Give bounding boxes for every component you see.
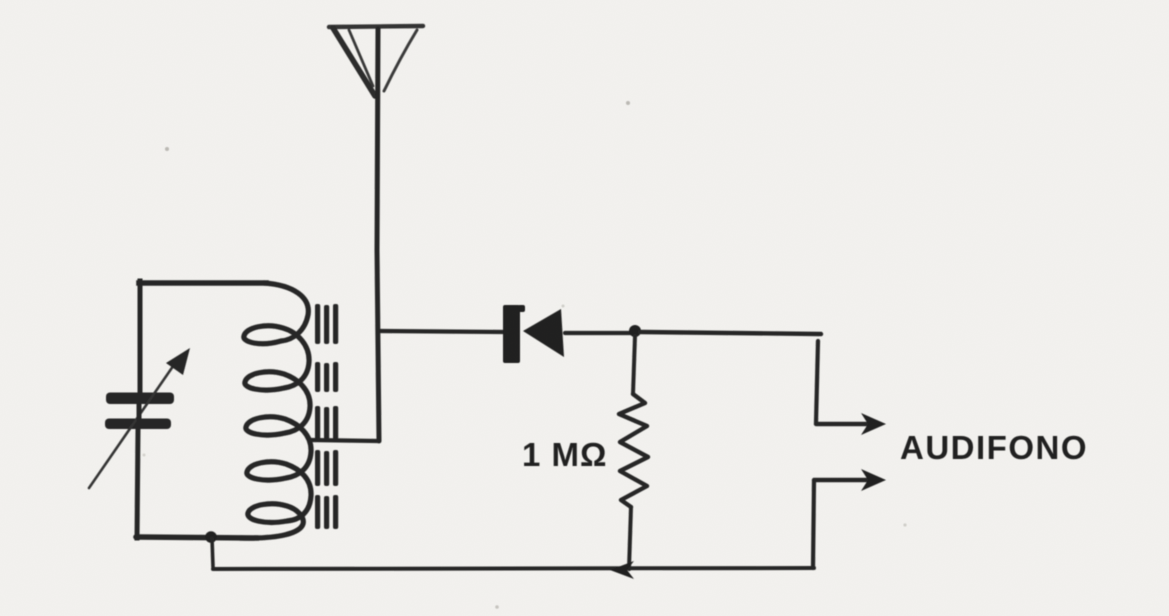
diode D1 triangle xyxy=(523,309,564,357)
inductor L1 coil xyxy=(240,283,311,538)
resistor R1 upper lead xyxy=(633,336,635,394)
wire bottom return xyxy=(213,568,814,569)
output terminal arrow lower xyxy=(814,469,886,491)
wire output lower vertical xyxy=(813,481,814,568)
resistor R1 lower lead xyxy=(629,507,631,569)
wire junction to output corner xyxy=(640,332,821,334)
wire top of tank loop xyxy=(139,280,266,286)
wire bottom of tank loop xyxy=(136,537,258,538)
node bottom-left junction dot xyxy=(205,531,217,543)
wire output upper vertical xyxy=(816,341,818,423)
wire tap from coil to antenna lead xyxy=(310,440,378,441)
antenna ANT1 xyxy=(329,26,423,96)
wire junction drop xyxy=(212,538,213,567)
capacitor C1 variable, bottom plate xyxy=(105,419,171,430)
inductor L1 core marks xyxy=(315,304,338,529)
arrow marker at resistor bottom junction xyxy=(610,561,634,579)
wire from antenna lead to diode xyxy=(379,331,505,332)
capacitor C1 adjustment arrow xyxy=(89,348,190,488)
wire antenna lead down xyxy=(377,29,379,441)
resistor R1 body zigzag xyxy=(619,394,648,507)
output terminal arrow upper xyxy=(816,413,886,435)
wire capacitor lower lead xyxy=(137,404,139,538)
wire left side of tank loop xyxy=(138,281,143,394)
node junction dot xyxy=(629,325,641,337)
diode D1 cathode bar xyxy=(503,305,520,363)
capacitor C1 variable, top plate xyxy=(106,393,174,405)
wire from diode to junction xyxy=(565,331,632,335)
